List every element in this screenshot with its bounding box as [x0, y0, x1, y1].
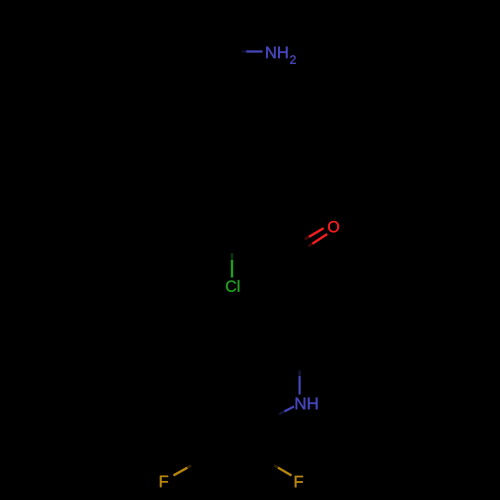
bond C7-N fade tail: [299, 370, 301, 376]
bond C-Cl, carbon half: [231, 242, 233, 260]
label F fluorine left: [160, 476, 168, 487]
wire: invisible carbon skeleton chain C_a to C_cl: [214, 52, 232, 242]
label NH2 amine: [266, 47, 295, 64]
bond C=O main line, carbon half: [297, 244, 313, 254]
wire: carbon chain carbonyl C down to C7: [270, 257, 300, 356]
benzene ring (2,4-difluorophenyl), near-invisible: [197, 402, 266, 482]
bond C-Cl fade tail: [231, 253, 233, 260]
bond C=O main line fade tail: [308, 244, 312, 247]
bond C4-F left, fluorine half: [174, 468, 188, 476]
bond C2-F right, fluorine half: [278, 468, 292, 476]
bond C2-F right, carbon half: [266, 462, 278, 468]
bond C-Cl, chlorine half: [231, 260, 233, 278]
bond C=O second line, oxygen half: [309, 228, 324, 237]
bond C-N (to NH2), carbon half: [230, 50, 246, 52]
bond N-C1 diagonal, nitrogen half: [285, 407, 295, 412]
label F fluorine right: [295, 476, 303, 487]
bond C=O main line, oxygen half: [312, 234, 327, 244]
bond C=O second line fade tail: [305, 237, 309, 240]
bond N-C1 (aniline to ring) diagonal, carbon half: [266, 411, 285, 421]
bond C=O second line, carbon half: [293, 237, 309, 246]
label NH aniline: [296, 398, 318, 410]
bond C-N (to NH2), nitrogen half: [246, 50, 262, 52]
bond C7-N vertical, nitrogen half: [299, 376, 301, 394]
bond C4-F left fade tail: [187, 466, 191, 468]
bond C4-F left, carbon half: [187, 462, 197, 468]
label O carbonyl oxygen: [328, 221, 339, 232]
wire: carbon chain C_cl to carbonyl C: [232, 242, 294, 270]
bond C7-N (aniline) vertical, carbon half: [299, 355, 301, 376]
bond C-N fade tail: [242, 50, 247, 52]
bond C2-F right fade tail: [274, 465, 278, 467]
bond N-C1 fade tail: [279, 411, 284, 414]
label Cl chlorine: [226, 280, 239, 292]
